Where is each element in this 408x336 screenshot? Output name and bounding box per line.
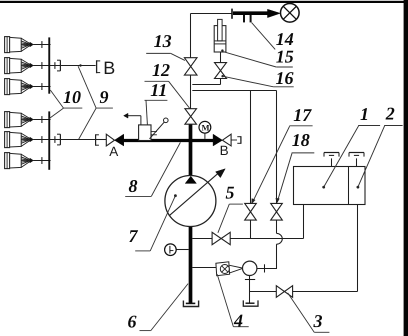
cylinder 15 [214,26,226,52]
fill pump suction drop [249,275,251,303]
svg-text:12: 12 [152,60,170,80]
pipe valve 3 to tank leg [293,291,358,293]
fill pump sump pipe end [246,302,255,304]
svg-text:17: 17 [293,105,312,125]
svg-text:4: 4 [233,311,243,331]
valve 17 [245,203,257,211]
svg-text:B: B [103,58,115,78]
valve 12 [185,109,197,117]
top run to boom [191,13,233,15]
gauge on suction pipe [176,249,189,251]
leader label 6 [140,330,151,332]
connector bracket to node B (top group) [96,60,98,73]
nozzle N1 [5,37,10,53]
pipe filler header [192,90,276,92]
manifold bar group 1 [48,37,50,93]
fan circle with X [281,4,300,23]
open triangle at node B [222,134,231,146]
tank 1 outlet leg [303,205,305,239]
leader label 10 [64,107,83,109]
pipe fill pump to riser corner [257,268,277,270]
pump 7 intake arrow [185,176,196,183]
border frame right edge [404,0,408,336]
tank 1 body [294,167,366,205]
pipe to valve 16 branch [192,84,220,86]
filter drive 4 [216,262,230,276]
svg-text:6: 6 [128,312,137,332]
pipe hop over return line [277,233,283,244]
leader label 15 [223,52,276,67]
tank filler cap 1 [331,158,333,166]
spray boom 14 [231,9,233,19]
leader label 16 [221,75,223,77]
valve 16 [215,63,227,71]
coupler fitting at node B [231,139,237,141]
svg-text:7: 7 [129,226,139,246]
svg-text:16: 16 [276,68,294,88]
leader label 11 [145,99,168,101]
pump 7 variable arrow [169,172,219,215]
svg-text:M: M [202,123,210,133]
manifold bar group 2 [48,111,50,169]
pipe return left of valve 5 [192,238,212,240]
svg-text:15: 15 [276,47,294,67]
pipe valve 3 to pump suction [250,291,277,293]
pipe suction to fill pump [192,267,216,269]
pipe return right of valve 5 [230,238,303,240]
riser pipe between valves 13 and 12 [190,75,192,109]
hose coupler group at y=65.5 [50,65,95,67]
main sump tank symbol [183,301,198,307]
svg-text:3: 3 [313,311,323,331]
pipe below valve 17 [250,220,252,238]
svg-text:13: 13 [154,31,172,51]
fill pump 4 circle [243,261,257,275]
gauge M on main line [204,133,206,139]
leader label 9 [96,107,113,109]
tank 2 outlet leg [357,205,359,292]
svg-text:8: 8 [129,176,138,196]
valve 5 [212,232,221,244]
leader label 3 [288,293,315,332]
leader label 7 [174,194,177,197]
pipe drop to valve 17 [250,91,252,204]
pump 7 circle [165,176,216,227]
coupler fitting at node A [95,134,97,145]
svg-text:9: 9 [100,87,109,107]
pipe drop to valve 18 [276,91,278,204]
nozzle N2 [5,58,10,74]
leader label 2 [357,186,360,189]
main sump pipe end [186,302,196,304]
svg-text:11: 11 [150,80,167,100]
svg-text:A: A [109,144,118,159]
suction pipe 6 thick lower [189,226,193,304]
filled arrow at node A [115,134,124,146]
border frame top edge [0,1,408,3]
valve 18 [271,203,283,211]
tank filler cap 2 [356,158,358,166]
svg-text:18: 18 [292,130,310,150]
valve 3 [276,286,284,298]
leader label 12 [145,80,169,82]
filled arrow at node B [213,134,222,146]
leader label 5 [229,203,243,205]
pipe below hop [276,244,278,268]
fill pump sump tank symbol [243,300,258,306]
nozzle N3 [5,79,10,95]
riser pipe thin upper [190,14,192,58]
svg-text:2: 2 [385,104,395,124]
svg-text:1: 1 [360,104,369,124]
nozzle N5 [5,132,10,148]
suction pipe 6 thick upper [189,124,193,177]
open triangle at node A [106,134,114,146]
leader label 4 [217,274,233,327]
hose coupler group at y=139.5 [50,139,95,141]
svg-text:10: 10 [63,87,81,107]
leader label 13 [146,52,171,54]
pipe below valve 18 [276,220,278,233]
junction dot on group line [79,64,81,66]
main distribution pipe 8 (thick horizontal) [124,139,213,142]
fill pump suction tick [245,279,255,281]
nozzle N6 [5,153,10,169]
leader label 14 [252,23,276,50]
svg-text:B: B [220,143,229,158]
leader label 1 [322,186,325,189]
leader label 18 [277,153,292,202]
svg-text:5: 5 [226,183,235,203]
tank 2 divider [348,167,350,205]
valve 13 [184,58,197,67]
leader label 8 [125,195,151,197]
nozzle N4 [5,112,10,128]
pump regulator 11 with lever [139,125,151,141]
leader label 17 [252,126,289,202]
